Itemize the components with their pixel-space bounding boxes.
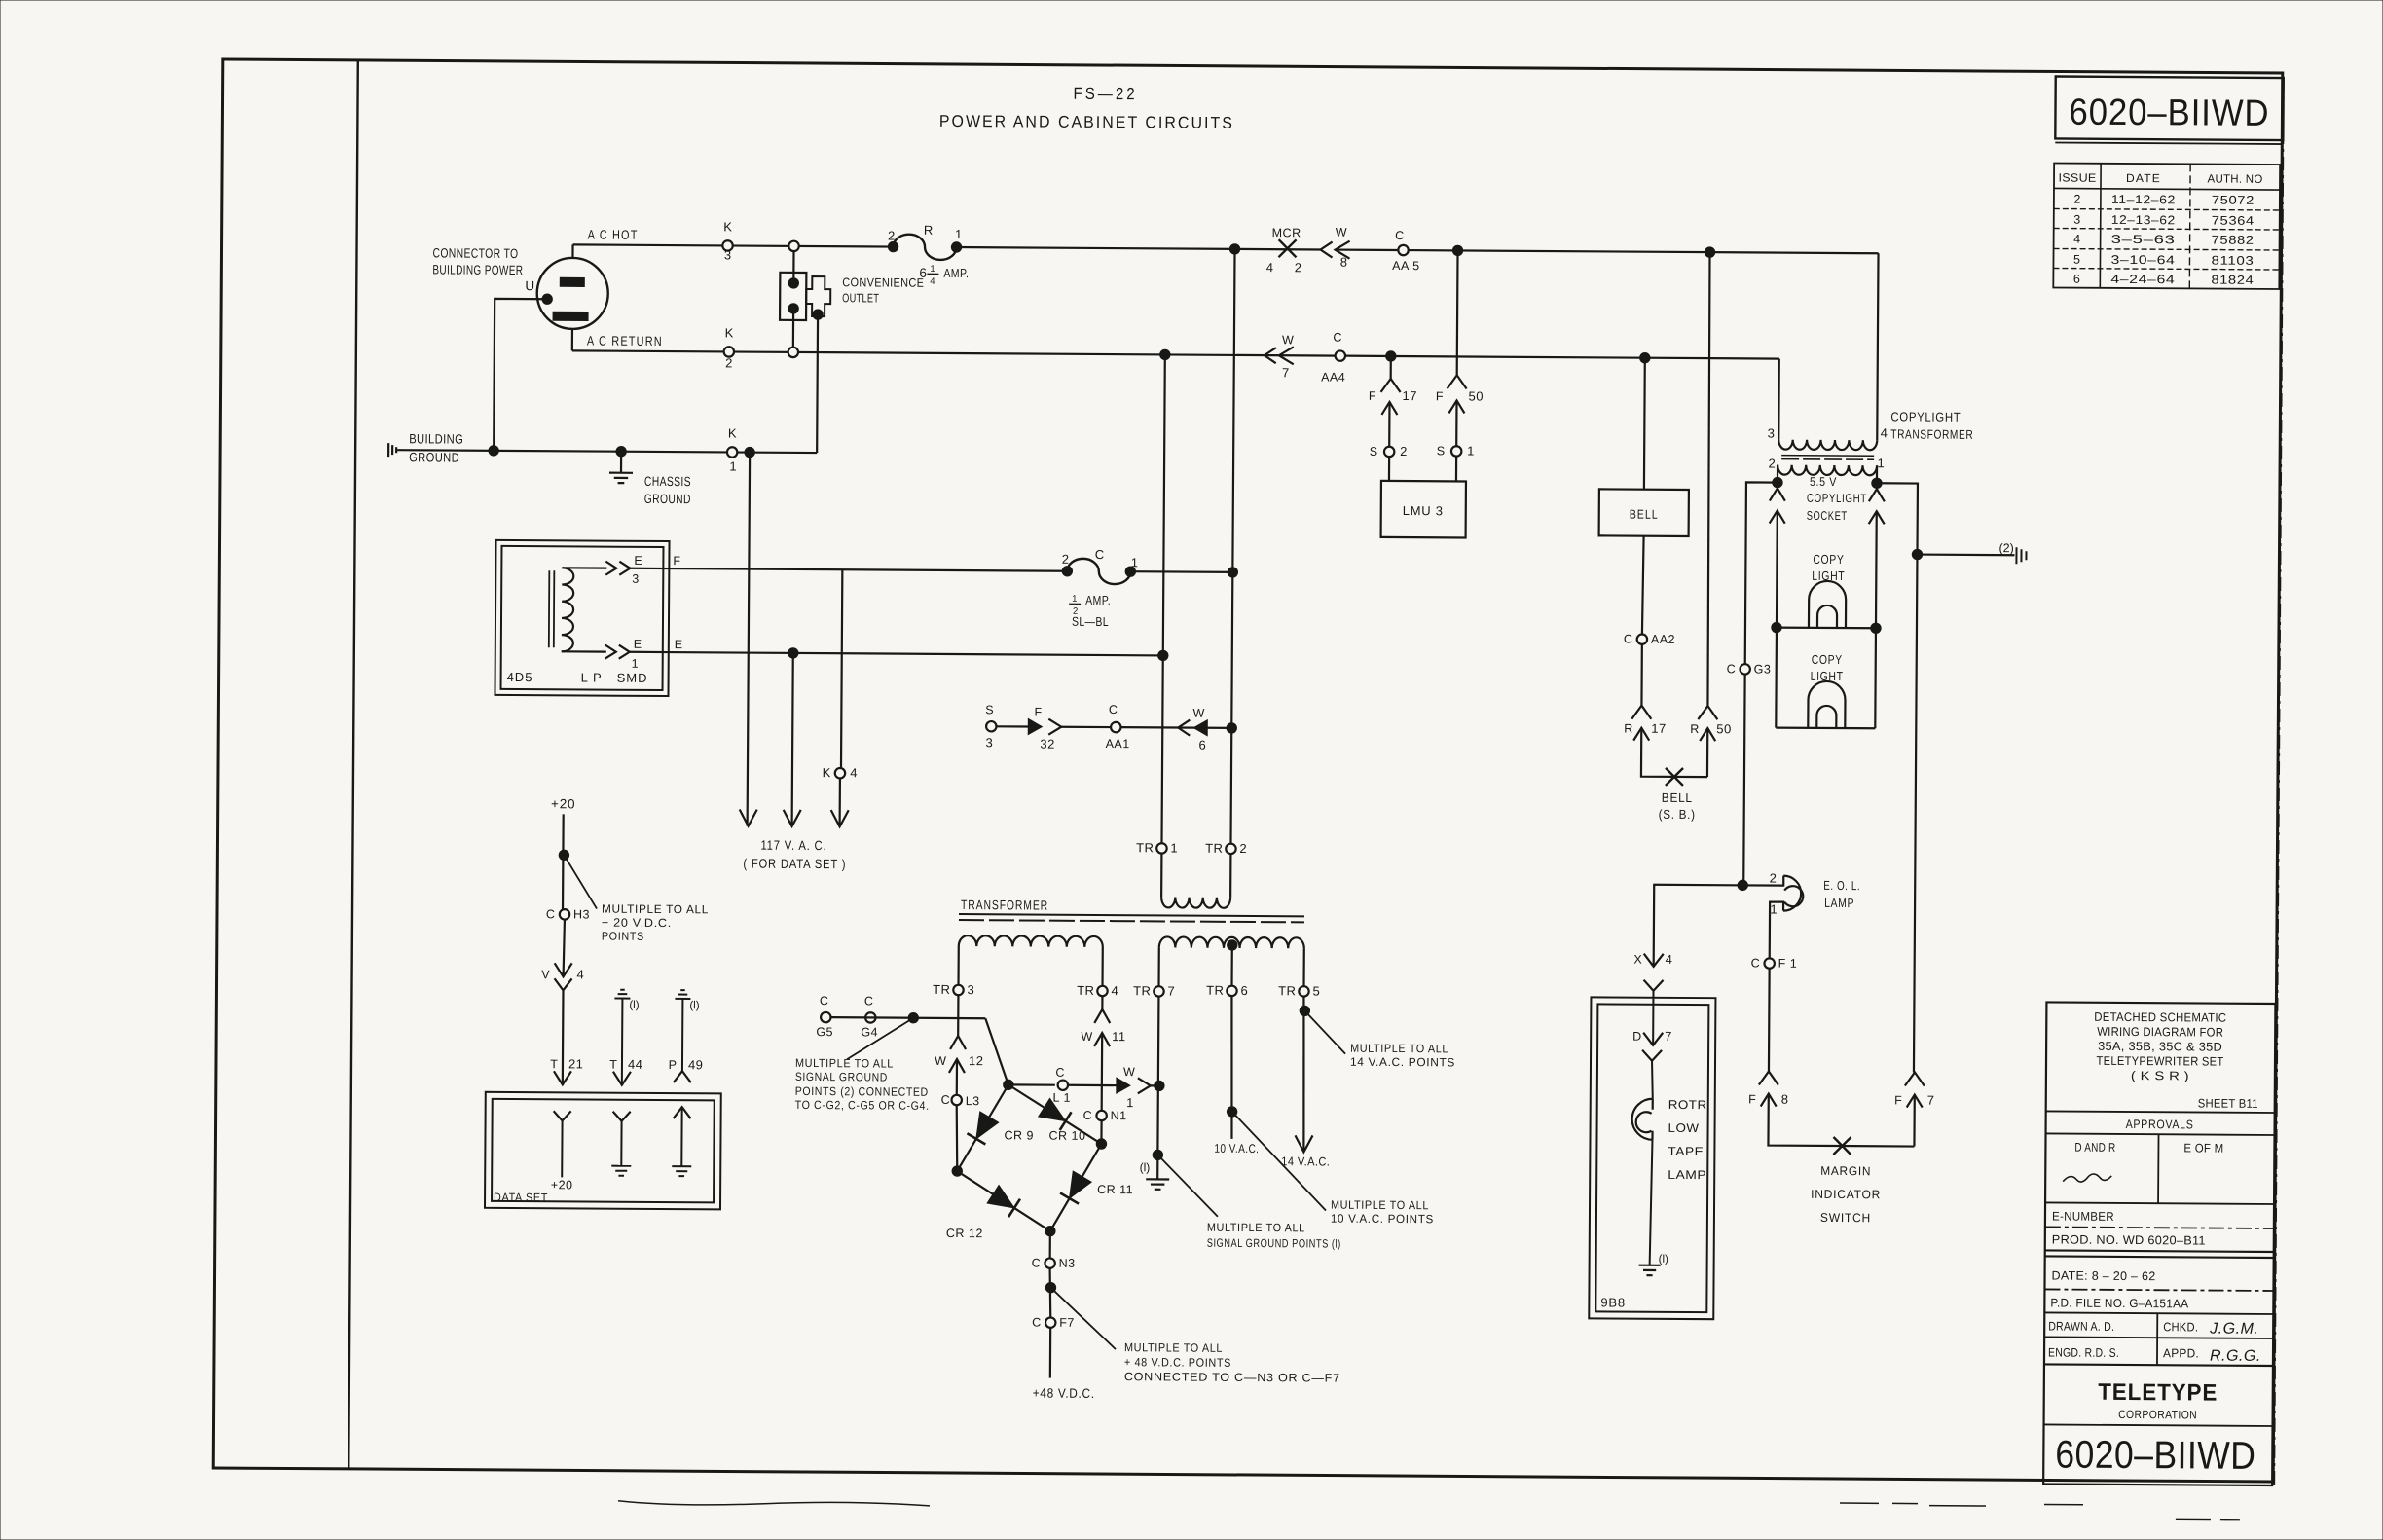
svg-text:5: 5 (2073, 253, 2080, 267)
svg-text:6: 6 (1240, 983, 1247, 998)
junction dot copylight pin1 (1872, 478, 1882, 488)
svg-text:SWITCH: SWITCH (1820, 1211, 1871, 1225)
svg-text:L 1: L 1 (1052, 1091, 1071, 1105)
svg-text:BELL: BELL (1662, 790, 1693, 805)
svg-text:( K S R ): ( K S R ) (2131, 1069, 2189, 1082)
svg-text:APPROVALS: APPROVALS (2126, 1118, 2194, 1131)
svg-text:12–13–62: 12–13–62 (2111, 213, 2176, 227)
connector F32 (1028, 719, 1042, 735)
svg-text:1: 1 (1072, 594, 1077, 605)
svg-text:E: E (634, 638, 642, 651)
svg-text:G3: G3 (1754, 662, 1772, 676)
svg-text:MULTIPLE TO ALL: MULTIPLE TO ALL (1331, 1198, 1429, 1213)
svg-text:+48 V.D.C.: +48 V.D.C. (1033, 1386, 1095, 1401)
svg-text:W: W (1282, 333, 1294, 347)
connector W6 (1178, 720, 1190, 736)
svg-text:FS—22: FS—22 (1074, 84, 1138, 103)
connector X4 fork (1643, 980, 1663, 991)
title block 6020-B11WD top box (2055, 76, 2283, 140)
connector V4 fork (554, 978, 571, 990)
svg-text:(l): (l) (1140, 1160, 1151, 1174)
connector F17 fork (1381, 379, 1401, 392)
svg-text:J.G.M.: J.G.M. (2209, 1321, 2258, 1338)
connector W8 (1320, 241, 1332, 257)
svg-text:50: 50 (1716, 721, 1732, 736)
svg-text:S: S (1370, 445, 1377, 458)
connector P49 fork (674, 1071, 691, 1082)
svg-text:AA1: AA1 (1106, 737, 1130, 751)
transformer core (959, 914, 1304, 916)
transformer coil in LP SMD (548, 570, 551, 647)
ground signal (1) below TR7 (1146, 1178, 1169, 1180)
svg-text:TR: TR (1133, 983, 1151, 998)
svg-text:TRANSFORMER: TRANSFORMER (961, 898, 1048, 913)
svg-text:R: R (1690, 722, 1699, 736)
svg-text:POINTS: POINTS (602, 930, 644, 943)
lamp EOL (1783, 876, 1801, 911)
svg-text:F7: F7 (1059, 1316, 1075, 1330)
svg-text:2: 2 (1062, 552, 1069, 567)
leader to signal ground note 2 (847, 1017, 913, 1059)
wire outlet bottom riser (792, 313, 794, 348)
leader to +48 note (1050, 1288, 1116, 1349)
svg-text:( FOR DATA SET ): ( FOR DATA SET ) (743, 857, 846, 872)
svg-text:DATE: DATE (2126, 171, 2161, 185)
svg-text:T: T (550, 1057, 558, 1071)
connector D7 fork (1642, 1050, 1662, 1061)
svg-text:SMD: SMD (617, 671, 648, 685)
svg-text:COPYLIGHT: COPYLIGHT (1807, 492, 1867, 505)
svg-text:ENGD. R.D. S.: ENGD. R.D. S. (2048, 1345, 2119, 1359)
svg-text:D AND R: D AND R (2074, 1141, 2115, 1155)
junction dot secondary center tap (1228, 940, 1237, 950)
svg-text:2: 2 (2073, 193, 2080, 206)
junction dot F x TR2 riser (1228, 568, 1237, 577)
svg-text:+20: +20 (551, 796, 575, 811)
svg-text:(l): (l) (689, 1000, 699, 1011)
junction circle outlet top (788, 241, 798, 251)
svg-text:7: 7 (1282, 365, 1289, 380)
svg-text:14 V.A.C. POINTS: 14 V.A.C. POINTS (1350, 1055, 1455, 1070)
svg-text:LIGHT: LIGHT (1811, 669, 1844, 683)
svg-text:MULTIPLE TO ALL: MULTIPLE TO ALL (602, 902, 709, 917)
svg-text:X: X (1633, 953, 1642, 967)
wire bridge bottom to N3 (1049, 1231, 1051, 1259)
LP SMD box 4D5 (495, 540, 669, 696)
svg-text:K: K (723, 219, 732, 234)
junction circle outlet bottom (788, 348, 798, 357)
convenience outlet plug symbol (806, 276, 830, 316)
svg-text:F: F (1369, 389, 1376, 403)
svg-text:1: 1 (1467, 443, 1474, 458)
wire EOL line (1653, 884, 1783, 887)
svg-text:3: 3 (986, 735, 993, 750)
wire F fuse to TR2 riser (1130, 570, 1232, 573)
svg-text:TRANSFORMER: TRANSFORMER (1890, 426, 1973, 442)
wire TR5 lead (1302, 948, 1304, 986)
junction dot EOL x left rail (1738, 880, 1747, 890)
wire L3 to bridge left corner (956, 1105, 957, 1171)
svg-text:1: 1 (930, 264, 935, 275)
connector T44 arrow (613, 1072, 631, 1085)
wire 117vac arrow 2 (792, 653, 793, 826)
svg-text:1: 1 (955, 227, 962, 241)
border right dash-dot (2274, 78, 2284, 1485)
svg-text:2: 2 (1400, 444, 1407, 458)
svg-text:G4: G4 (861, 1025, 878, 1039)
wire S3 to F32 (997, 725, 1028, 727)
stray scan marks bottom margin (618, 1501, 930, 1507)
svg-text:CR 12: CR 12 (946, 1227, 983, 1240)
junction dot K1 right (745, 447, 754, 457)
svg-text:DETACHED SCHEMATIC: DETACHED SCHEMATIC (2094, 1010, 2226, 1025)
svg-text:CORPORATION: CORPORATION (2118, 1408, 2197, 1422)
svg-text:CONNECTED TO C—N3 OR C—F7: CONNECTED TO C—N3 OR C—F7 (1124, 1370, 1340, 1384)
svg-text:MULTIPLE TO ALL: MULTIPLE TO ALL (1350, 1042, 1448, 1056)
ground (2) bars (2015, 547, 2017, 564)
svg-text:(2): (2) (1998, 541, 2013, 555)
lamp ROTR low tape (1631, 1099, 1652, 1140)
wire LP SMD top lead (562, 567, 606, 569)
wire BELL to AA2 (1642, 536, 1644, 635)
junction dot W6 x TR2 riser (1227, 723, 1236, 733)
wire riser AC HOT to TR2 (1230, 249, 1234, 844)
wire +20 column (562, 814, 565, 914)
connector R50 arrow (1706, 728, 1709, 777)
svg-text:21: 21 (568, 1056, 584, 1071)
wire 117vac arrow 3 via K4 (841, 569, 842, 767)
svg-text:75364: 75364 (2212, 214, 2255, 228)
svg-text:S: S (1437, 444, 1445, 458)
junction dot TR5 leader (1300, 1006, 1309, 1015)
svg-text:1: 1 (1877, 456, 1884, 470)
connector D7 arrow (1643, 1033, 1663, 1045)
svg-text:AA4: AA4 (1321, 370, 1345, 384)
wire to (2) ground (1917, 553, 2014, 556)
LMU3 box (1381, 481, 1466, 538)
svg-text:GROUND: GROUND (409, 450, 459, 464)
svg-text:CHASSIS: CHASSIS (644, 474, 691, 489)
wire copylight inner rails (1775, 628, 1778, 728)
svg-text:MULTIPLE TO ALL: MULTIPLE TO ALL (1124, 1340, 1223, 1355)
svg-text:F: F (1035, 706, 1043, 719)
svg-text:SHEET B11: SHEET B11 (2198, 1096, 2258, 1110)
connector W7 (1265, 348, 1276, 363)
junction dot TR6 leader (1227, 1107, 1236, 1117)
svg-text:75882: 75882 (2212, 234, 2255, 247)
svg-text:R.G.G.: R.G.G. (2210, 1348, 2261, 1365)
wire plug U to ground (494, 299, 547, 451)
svg-text:E. O. L.: E. O. L. (1823, 878, 1860, 893)
svg-text:8: 8 (1781, 1092, 1788, 1107)
svg-text:V: V (541, 968, 550, 981)
svg-text:G5: G5 (816, 1025, 833, 1039)
svg-text:4: 4 (930, 276, 935, 287)
svg-text:L3: L3 (966, 1094, 980, 1108)
wire AC HOT fuse to MCR (957, 247, 1235, 249)
svg-text:C: C (1055, 1066, 1064, 1080)
wire N1 to bridge right corner (1100, 1120, 1102, 1144)
wire copylight right rail (1873, 483, 1918, 1072)
svg-text:U: U (525, 278, 534, 293)
diode CR9 (976, 1112, 999, 1139)
svg-text:4: 4 (2073, 233, 2080, 246)
svg-text:1: 1 (1126, 1095, 1133, 1110)
connector fork below TR4 (1094, 1009, 1110, 1023)
diode CR11 (1070, 1171, 1092, 1198)
svg-text:6: 6 (1198, 738, 1205, 752)
svg-text:ROTR: ROTR (1668, 1098, 1707, 1112)
svg-text:17: 17 (1651, 721, 1667, 736)
wire pin4 riser (1877, 253, 1878, 440)
junction dot AC RETURN x TR1 riser (1160, 349, 1170, 359)
connector W12 arrow (949, 1059, 965, 1073)
svg-text:TR: TR (933, 982, 950, 997)
svg-text:3: 3 (2073, 213, 2080, 227)
svg-text:W: W (1336, 226, 1347, 239)
svg-text:CONVENIENCE: CONVENIENCE (842, 275, 924, 290)
approval pencil signature (2063, 1174, 2111, 1183)
svg-text:11: 11 (1112, 1029, 1126, 1044)
chassis ground symbol (620, 452, 622, 473)
wire TR4 lead (1101, 947, 1103, 986)
svg-text:AMP.: AMP. (1085, 593, 1111, 607)
svg-text:8: 8 (1340, 255, 1347, 270)
junction dot TR7 x W1 line (1155, 1081, 1164, 1090)
bridge edge right-bottom (1050, 1144, 1102, 1231)
svg-text:COPY: COPY (1812, 652, 1843, 667)
svg-text:C: C (1083, 1109, 1092, 1122)
bridge rectifier corner dots (1004, 1080, 1013, 1089)
connector R17 arrow (1633, 728, 1649, 741)
svg-text:+ 20 V.D.C.: + 20 V.D.C. (602, 916, 672, 930)
svg-text:4D5: 4D5 (507, 670, 533, 684)
copylight socket left (1770, 489, 1785, 501)
svg-text:W: W (1123, 1065, 1135, 1079)
connector W11 arrow (1094, 1033, 1110, 1046)
svg-text:4: 4 (577, 967, 584, 981)
svg-text:117 V. A. C.: 117 V. A. C. (760, 838, 826, 853)
issue table (2053, 163, 2280, 289)
svg-text:4: 4 (1666, 952, 1672, 967)
data set box (485, 1092, 721, 1210)
svg-text:T: T (609, 1058, 617, 1072)
connector F50 fork (1448, 375, 1467, 388)
wire riser AC RETURN to TR1 (1161, 354, 1164, 843)
svg-text:C: C (1727, 662, 1736, 676)
svg-text:4: 4 (1266, 260, 1273, 275)
svg-text:TR: TR (1278, 983, 1296, 998)
svg-text:R: R (924, 223, 933, 238)
svg-text:75072: 75072 (2212, 194, 2255, 207)
svg-text:AA2: AA2 (1651, 633, 1675, 646)
svg-text:COPY: COPY (1813, 552, 1844, 567)
fuse R 6-1/4 AMP (888, 241, 898, 251)
svg-text:C: C (1395, 229, 1404, 242)
wire plug bottom to AC RETURN (571, 329, 573, 350)
copy light lamp 1 (1809, 581, 1846, 628)
wire R50 riser to AC HOT (1706, 252, 1710, 706)
svg-text:GROUND: GROUND (644, 492, 691, 506)
wire outlet to ground line (816, 319, 819, 453)
bridge edge top-right (1008, 1084, 1101, 1144)
bridge edge top-left (957, 1084, 1008, 1171)
svg-text:D: D (1632, 1030, 1641, 1044)
transformer secondary right coil (1159, 936, 1304, 948)
svg-text:1: 1 (1170, 840, 1177, 855)
svg-text:E: E (634, 554, 642, 568)
svg-text:81824: 81824 (2211, 274, 2254, 287)
svg-text:ISSUE: ISSUE (2059, 171, 2097, 185)
svg-text:SIGNAL GROUND: SIGNAL GROUND (795, 1070, 888, 1084)
connector R50 fork (1698, 706, 1717, 719)
svg-text:W: W (935, 1054, 946, 1068)
svg-text:N1: N1 (1111, 1109, 1127, 1122)
junction dot (2) ground line (1912, 549, 1922, 559)
svg-text:TR: TR (1206, 983, 1224, 998)
svg-text:17: 17 (1402, 388, 1417, 403)
wire F17 riser (1390, 356, 1392, 379)
junction dot chassis ground (616, 446, 626, 456)
BELL box (1599, 489, 1689, 536)
junction dot G line leader (908, 1012, 918, 1022)
svg-text:WIRING DIAGRAM FOR: WIRING DIAGRAM FOR (2097, 1025, 2223, 1040)
connector F7 arrow (1913, 1095, 1916, 1147)
plug connector circle (536, 258, 607, 329)
svg-text:DATE: 8 – 20 – 62: DATE: 8 – 20 – 62 (2052, 1268, 2156, 1283)
svg-text:LOW: LOW (1668, 1121, 1700, 1135)
svg-text:INDICATOR: INDICATOR (1811, 1188, 1881, 1201)
svg-text:7: 7 (1665, 1029, 1671, 1044)
svg-text:C: C (864, 994, 873, 1008)
wire F1 to F8 (1768, 969, 1771, 1072)
svg-text:C: C (1032, 1316, 1041, 1330)
leader to 14vac note (1304, 1010, 1345, 1053)
svg-text:E-NUMBER: E-NUMBER (2052, 1209, 2114, 1223)
arrow 14vac (1295, 1135, 1312, 1152)
svg-text:6: 6 (2073, 273, 2080, 286)
junction dot U wire (489, 446, 498, 456)
svg-text:E OF M: E OF M (2183, 1141, 2223, 1155)
svg-text:BELL: BELL (1630, 507, 1659, 522)
svg-text:C: C (820, 994, 828, 1008)
wire TR3 lead (957, 946, 959, 985)
svg-text:TELETYPE: TELETYPE (2098, 1379, 2218, 1407)
svg-text:BUILDING POWER: BUILDING POWER (432, 262, 523, 277)
wire X4 riser (1653, 885, 1656, 967)
svg-text:TELETYPEWRITER SET: TELETYPEWRITER SET (2096, 1054, 2223, 1069)
transformer secondary left coil (959, 935, 1103, 947)
svg-text:6020–BIIWD: 6020–BIIWD (2055, 1434, 2255, 1478)
building ground symbol (387, 443, 389, 457)
svg-text:32: 32 (1040, 737, 1055, 752)
svg-text:2: 2 (1768, 457, 1775, 471)
svg-text:P.D. FILE NO. G–A151AA: P.D. FILE NO. G–A151AA (2050, 1296, 2188, 1310)
wire F8 to margin switch (1768, 1094, 1914, 1147)
svg-text:N3: N3 (1059, 1257, 1076, 1270)
connector F8 fork (1759, 1071, 1778, 1084)
svg-text:2: 2 (888, 229, 895, 243)
wire BELL riser (1643, 358, 1646, 490)
connector fork below TR3 (950, 1036, 966, 1049)
wire AA2 to R17 (1640, 644, 1643, 706)
switch BELL S.B. (1666, 768, 1683, 786)
copylight socket right (1869, 489, 1885, 501)
wire F7 to +48 (1049, 1328, 1052, 1378)
wire AA1 to W6 (1121, 726, 1230, 729)
svg-text:S: S (985, 703, 993, 716)
svg-text:MCR: MCR (1272, 226, 1301, 239)
svg-text:OUTLET: OUTLET (842, 291, 879, 305)
svg-text:14 V.A.C.: 14 V.A.C. (1281, 1155, 1330, 1168)
svg-text:TR: TR (1077, 983, 1094, 998)
svg-text:POWER AND CABINET CIRCUITS: POWER AND CABINET CIRCUITS (939, 112, 1234, 132)
svg-text:CR 10: CR 10 (1048, 1129, 1085, 1143)
wire TR6 lead (1230, 945, 1232, 986)
svg-text:K: K (823, 765, 831, 780)
convenience outlet body (780, 273, 806, 320)
ground (1) above P49 (680, 989, 684, 991)
svg-text:C: C (1032, 1257, 1041, 1270)
svg-text:LAMP: LAMP (1824, 896, 1854, 910)
svg-text:POINTS (2) CONNECTED: POINTS (2) CONNECTED (795, 1084, 929, 1099)
svg-text:3–10–64: 3–10–64 (2110, 253, 2175, 267)
border left margin divider (348, 60, 358, 1469)
wire lamp to ground (1650, 1140, 1653, 1265)
svg-text:1: 1 (632, 657, 639, 671)
wire building ground bus (397, 450, 817, 453)
junction dot F50 riser (1452, 245, 1462, 255)
svg-text:2: 2 (1239, 841, 1246, 856)
data set pin T21 inside (554, 1111, 571, 1120)
wire AC HOT (573, 244, 894, 246)
wire copylight left rail (1743, 482, 1778, 885)
svg-text:BUILDING: BUILDING (409, 431, 463, 446)
svg-text:9B8: 9B8 (1600, 1295, 1626, 1309)
svg-text:3: 3 (967, 982, 973, 997)
svg-text:4–24–64: 4–24–64 (2110, 273, 2175, 286)
svg-text:10 V.A.C. POINTS: 10 V.A.C. POINTS (1331, 1212, 1434, 1227)
wire outlet top riser (792, 251, 794, 278)
switch margin indicator (1833, 1137, 1851, 1155)
svg-text:H3: H3 (573, 907, 590, 921)
svg-text:E: E (675, 638, 682, 651)
connector F50 arrow (1448, 400, 1464, 413)
svg-text:3–5–63: 3–5–63 (2111, 233, 2176, 246)
svg-text:C: C (546, 907, 555, 921)
svg-text:A C HOT: A C HOT (588, 227, 639, 241)
svg-text:2: 2 (1295, 260, 1301, 275)
copy light lamp 2 (1808, 681, 1845, 728)
transformer primary coil (1161, 897, 1230, 907)
svg-text:5.5 V: 5.5 V (1810, 475, 1837, 489)
svg-text:LMU 3: LMU 3 (1403, 503, 1444, 518)
junction dot F17 riser (1386, 351, 1396, 361)
svg-text:TR: TR (1136, 840, 1154, 855)
svg-text:81103: 81103 (2211, 254, 2254, 268)
svg-text:CR 11: CR 11 (1097, 1183, 1133, 1196)
ground (1) above T44 (620, 989, 624, 991)
svg-text:A C RETURN: A C RETURN (587, 333, 663, 348)
svg-text:1: 1 (1131, 555, 1138, 569)
copy light lamp row 1 (1777, 626, 1876, 629)
connector V4 arrow (555, 963, 572, 976)
svg-text:APPD.: APPD. (2163, 1346, 2199, 1360)
svg-text:F: F (1436, 389, 1444, 403)
svg-text:MULTIPLE TO ALL: MULTIPLE TO ALL (1207, 1221, 1305, 1235)
svg-text:11–12–62: 11–12–62 (2111, 193, 2176, 206)
svg-text:3: 3 (632, 572, 639, 586)
